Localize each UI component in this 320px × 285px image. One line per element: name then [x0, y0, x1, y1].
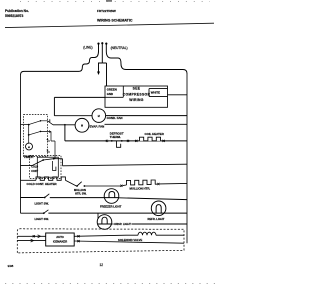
- scan artifact: bottom edge dots: [5, 283, 215, 285]
- connector X: [33, 235, 35, 237]
- wire: cold control input: [21, 160, 44, 166]
- timer contact arm 1: [29, 121, 41, 125]
- wire: evap to defrost drop: [65, 125, 107, 141]
- mullion heater element: [127, 180, 156, 185]
- defrost timer box: [24, 115, 48, 157]
- svg-text:M: M: [28, 147, 30, 149]
- junction dot evap/defrost: [64, 124, 66, 126]
- wire defrost row segment: [108, 140, 187, 142]
- svg-text:COND. FAN: COND. FAN: [107, 116, 123, 120]
- cold control sensing bulb: [53, 161, 56, 171]
- wire: condenser fan row: [54, 115, 187, 117]
- connector X on defrost row: [106, 140, 108, 142]
- wire: diagonal to mullion row: [65, 180, 76, 186]
- cold control switch: [43, 159, 54, 160]
- svg-text:COLD CONT. HEATER: COLD CONT. HEATER: [27, 182, 58, 186]
- power plug prong (ground): [101, 44, 103, 51]
- svg-text:THERM.: THERM.: [110, 135, 121, 139]
- wire: refrigerator light row: [21, 212, 188, 214]
- scan artifact: top edge dots: [20, 1, 210, 3]
- svg-text:ICEMAKER: ICEMAKER: [53, 240, 67, 244]
- svg-text:MULLION HTR.: MULLION HTR.: [130, 187, 151, 191]
- wire: white compressor lead: [168, 94, 188, 96]
- wire: green ground to compressor box: [102, 63, 106, 86]
- svg-text:3/98: 3/98: [8, 264, 14, 268]
- cold control solid box: [37, 157, 58, 177]
- connector X: [77, 240, 79, 242]
- wire: timer pin1 to cold control: [48, 131, 56, 158]
- defrost thermostat: [117, 141, 121, 147]
- connector X: [120, 185, 122, 187]
- compressor box: [105, 86, 168, 107]
- svg-text:EVAP. FAN: EVAP. FAN: [90, 125, 105, 129]
- svg-text:5995218973: 5995218973: [5, 14, 24, 18]
- motor: evaporator fan: [75, 118, 89, 132]
- wire: solenoid row 1: [74, 235, 184, 236]
- wire: evaporator fan row: [53, 123, 187, 126]
- wire: left bus: [20, 75, 22, 213]
- lamp: refrigerator light: [151, 201, 166, 216]
- wire: crisper light row: [98, 223, 188, 225]
- header: publication number: [5, 9, 29, 18]
- wire: right bus: [186, 74, 188, 244]
- mullion heater switch: [76, 185, 78, 187]
- wire: cold control heater lead: [21, 179, 37, 181]
- timer terminal stubs: [41, 121, 54, 152]
- wire: crisper light drop: [97, 213, 99, 219]
- lamp: crisper light: [97, 215, 112, 230]
- svg-text:LIGHT SW.: LIGHT SW.: [35, 217, 50, 221]
- scan artifact: top center blob: [106, 0, 112, 2]
- svg-text:MULLION: MULLION: [74, 188, 86, 192]
- wire: icemaker lead 2: [17, 240, 45, 242]
- junction dots timer: [28, 124, 30, 126]
- svg-text:AUTO: AUTO: [56, 235, 64, 239]
- plug prong tips: [97, 43, 99, 45]
- connector arrow: [38, 235, 41, 238]
- svg-text:(NEUTRAL): (NEUTRAL): [111, 46, 128, 50]
- svg-text:Publication No.: Publication No.: [5, 9, 29, 13]
- svg-text:REFR. LIGHT: REFR. LIGHT: [148, 217, 165, 221]
- svg-text:HTR. SW.: HTR. SW.: [75, 191, 87, 195]
- wire: mullion row: [85, 183, 187, 186]
- power plug prong (neutral): [105, 44, 107, 51]
- connector X: [135, 140, 137, 142]
- wire: ground prong drop: [99, 51, 103, 72]
- timer internal common wire: [21, 125, 29, 144]
- freezer light switch: [44, 197, 46, 199]
- lamp: freezer light: [104, 189, 119, 204]
- svg-text:SOLENOID VALVE: SOLENOID VALVE: [118, 238, 142, 242]
- auto icemaker box: [46, 233, 74, 246]
- svg-text:COMPRESSOR: COMPRESSOR: [123, 92, 151, 96]
- svg-text:CONT: CONT: [31, 170, 38, 173]
- wire: solenoid row 2: [74, 241, 184, 243]
- wire: freezer light row: [21, 198, 188, 200]
- svg-text:CRISP. LIGHT: CRISP. LIGHT: [114, 222, 132, 226]
- header rule: [5, 23, 214, 27]
- wire: icemaker lead 1: [17, 235, 45, 237]
- refr light switch: [43, 212, 45, 214]
- wire: line side from plug to left bus: [21, 51, 99, 75]
- svg-text:(LINE): (LINE): [83, 46, 92, 50]
- wire: cold control output row: [54, 159, 187, 166]
- ground arrow: [97, 72, 100, 76]
- svg-text:LIGHT SW.: LIGHT SW.: [35, 202, 50, 206]
- connector X: [127, 140, 129, 142]
- svg-text:M: M: [98, 115, 100, 118]
- connector X: [163, 140, 165, 142]
- solenoid coil: [138, 232, 156, 235]
- svg-text:FRT22TRBW: FRT22TRBW: [97, 9, 116, 13]
- connector arrow: [31, 239, 34, 242]
- svg-text:GND: GND: [107, 92, 113, 96]
- svg-text:M: M: [81, 125, 83, 128]
- cold control heater element: [36, 177, 65, 180]
- svg-text:FREEZER LIGHT: FREEZER LIGHT: [100, 204, 122, 208]
- coil heater element: [140, 137, 161, 141]
- power plug prong (line): [98, 44, 100, 51]
- timer contact arm 2: [29, 131, 41, 135]
- cold control dashed box: [30, 156, 62, 179]
- svg-text:WIRING SCHEMATIC: WIRING SCHEMATIC: [97, 18, 133, 22]
- svg-text:COIL HEATER: COIL HEATER: [145, 132, 165, 136]
- wire: neutral side from plug to right bus: [106, 51, 187, 74]
- wire: compressor feed: [54, 97, 105, 115]
- timer motor: [26, 143, 33, 150]
- svg-text:12: 12: [100, 263, 104, 267]
- svg-text:WIRING: WIRING: [129, 98, 143, 102]
- connector X: [157, 183, 159, 185]
- icemaker harness dashed box: [17, 229, 184, 253]
- compressor box text: [107, 86, 160, 102]
- svg-text:WHITE: WHITE: [151, 91, 160, 95]
- connector X: [77, 235, 79, 237]
- svg-text:SEE: SEE: [133, 86, 141, 90]
- motor: condenser fan: [92, 109, 106, 123]
